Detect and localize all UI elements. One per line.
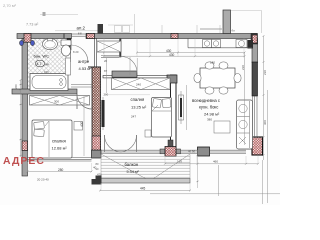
svg-text:бан. WC: бан. WC (34, 54, 50, 59)
svg-text:7.73 м²: 7.73 м² (26, 23, 39, 27)
svg-text:240: 240 (136, 83, 141, 87)
svg-text:5.34 м²: 5.34 м² (127, 170, 140, 174)
svg-text:180: 180 (210, 61, 215, 65)
svg-text:400: 400 (80, 121, 84, 127)
svg-text:230: 230 (263, 70, 267, 75)
svg-text:всекидневна с: всекидневна с (192, 98, 220, 103)
svg-text:4.7: 4.7 (37, 62, 42, 66)
svg-text:280: 280 (58, 168, 64, 172)
svg-text:20: 20 (104, 59, 108, 63)
svg-text:АДРЕС: АДРЕС (3, 156, 45, 167)
svg-text:87: 87 (104, 69, 108, 73)
svg-text:8 20: 8 20 (73, 50, 79, 54)
svg-text:247: 247 (131, 115, 136, 119)
svg-text:470: 470 (97, 173, 102, 177)
svg-text:160: 160 (44, 70, 49, 74)
svg-text:40: 40 (93, 166, 97, 170)
svg-text:8 8: 8 8 (78, 33, 82, 36)
svg-text:430: 430 (169, 53, 175, 57)
svg-text:300: 300 (54, 100, 59, 104)
svg-text:спалня: спалня (131, 97, 145, 102)
svg-text:230: 230 (241, 65, 245, 70)
svg-text:кухн. бокс: кухн. бокс (199, 105, 218, 110)
svg-text:445: 445 (140, 187, 146, 191)
svg-text:165: 165 (177, 160, 182, 164)
svg-text:24.98 м²: 24.98 м² (204, 112, 220, 117)
svg-text:220: 220 (14, 84, 18, 89)
svg-text:2,70 м²: 2,70 м² (3, 3, 17, 8)
svg-text:300: 300 (263, 120, 267, 125)
svg-text:380: 380 (207, 118, 212, 122)
svg-text:балкон: балкон (125, 162, 139, 167)
svg-text:20 20 40: 20 20 40 (37, 178, 49, 182)
svg-text:460: 460 (213, 160, 218, 164)
svg-text:46 90: 46 90 (188, 150, 195, 154)
svg-text:12.68 м²: 12.68 м² (52, 146, 68, 151)
svg-text:спалня: спалня (52, 139, 66, 144)
svg-text:антре: антре (78, 59, 90, 64)
svg-text:13.25 м²: 13.25 м² (131, 105, 147, 110)
svg-text:200: 200 (104, 93, 109, 97)
svg-text:бл: бл (232, 29, 236, 33)
svg-text:ап.2: ап.2 (77, 26, 86, 31)
svg-text:м²: м² (46, 63, 49, 67)
